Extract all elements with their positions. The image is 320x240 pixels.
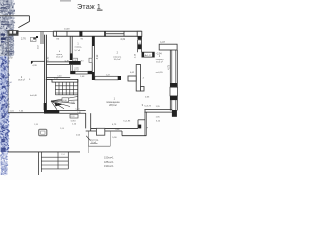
label 0,90 b: [71, 120, 77, 123]
leader line: [86, 136, 90, 141]
corner box: [137, 31, 142, 36]
svg-text:h=0,40: h=0,40: [30, 95, 38, 97]
stairs 0,90 box: [62, 98, 69, 102]
dim 7,44: [19, 111, 24, 113]
band76 pier right: [118, 76, 121, 80]
band62 lines: [46, 62, 69, 65]
svg-text:комната: комната: [113, 56, 122, 58]
top wall pier A: [79, 31, 82, 37]
dim 4,73 b: [112, 124, 117, 126]
top wall tick 4: [123, 31, 125, 36]
dim 0,62: [130, 72, 135, 74]
room 4 label: [156, 56, 164, 63]
dim 1,52 rotated: [38, 44, 40, 49]
top wall tick 1: [52, 31, 54, 36]
right wall pier 2: [170, 96, 178, 100]
equipment box: [39, 129, 47, 135]
dim 1,48: [80, 76, 85, 78]
svg-text:А=1,17: А=1,17: [145, 54, 152, 57]
corner pier lower: [138, 44, 142, 49]
left inner wall lines: [45, 35, 47, 113]
dim 1,40 a: [75, 108, 80, 110]
dim 5,90: [112, 137, 117, 139]
top wall outer line: [53, 30, 141, 32]
T pier step: [141, 87, 145, 92]
passage bottom line: [88, 145, 110, 147]
svg-text:2,76: 2,76: [21, 37, 26, 40]
door box 1,06: [72, 58, 77, 62]
label 4 small: [143, 78, 145, 80]
W2 pier bottom: [92, 72, 95, 80]
svg-text:14,48: 14,48: [64, 28, 70, 30]
dim 2,94: [156, 54, 162, 56]
svg-text:190га=1: 190га=1: [104, 164, 114, 168]
label 1,10 b: [72, 124, 77, 126]
dim 0,92: [8, 58, 13, 60]
band bottom low line: [122, 135, 146, 137]
top wall tick 3: [66, 31, 68, 36]
bottom stairs v1: [37, 152, 39, 175]
T pier foot: [128, 76, 136, 81]
left room label: [18, 77, 31, 82]
porch top line: [0, 15, 30, 17]
dim 3,38: [115, 129, 120, 131]
entrance window block: [8, 30, 19, 35]
svg-text:4,31: 4,31: [120, 38, 125, 41]
dim 4,99 left: [32, 65, 37, 67]
svg-text:4,99: 4,99: [97, 54, 99, 59]
svg-text:150га=1: 150га=1: [104, 156, 114, 160]
band71 pier right: [88, 71, 93, 74]
top wall pier B: [104, 31, 106, 37]
W1 lines: [70, 36, 72, 53]
svg-text:1,47: 1,47: [160, 41, 165, 44]
top wall tick 2: [55, 31, 57, 36]
band76 box: [95, 76, 118, 80]
room 1 label: [75, 43, 83, 52]
dim 1М: [56, 38, 59, 40]
title: Этаж 1: [77, 2, 103, 11]
passage left vertical: [87, 131, 89, 146]
svg-text:5,7 м²: 5,7 м²: [75, 49, 81, 52]
right wall window box: [170, 87, 178, 96]
label h=1,95: [124, 121, 132, 123]
svg-text:10,4 м²: 10,4 м²: [114, 58, 121, 61]
band bottom top line: [91, 127, 138, 129]
dim 2,04 a: [60, 128, 65, 130]
scan noise left edge: [0, 0, 15, 176]
wall bar: [86, 113, 91, 131]
dim 4,99 rotated: [97, 54, 99, 59]
svg-text:помещ.: помещ.: [75, 46, 83, 48]
dim 1,62 rotated: [47, 56, 49, 61]
band step vertical: [121, 131, 123, 136]
svg-text:0,90≈: 0,90≈: [71, 120, 77, 123]
porch right line: [28, 16, 30, 22]
room 3 number: [142, 103, 144, 107]
dim 1,95 a: [156, 106, 161, 108]
dim 0,70: [65, 60, 70, 62]
band pier near notch: [138, 125, 141, 129]
small box with marks: [30, 37, 36, 42]
dim НО: [81, 60, 84, 62]
svg-text:n=0,55: n=0,55: [156, 72, 164, 74]
lintel box A117: [142, 52, 154, 57]
dim 4,73 rotated: [167, 64, 170, 69]
top-right lintel box: [159, 44, 177, 50]
kitchen lower line: [46, 77, 70, 79]
T pier bar: [136, 65, 140, 92]
top wall inner line: [53, 35, 141, 37]
kitchen label: [56, 51, 63, 58]
stairs winder fan: [51, 97, 78, 110]
corner pier upper: [138, 36, 142, 39]
passage tail: [87, 146, 89, 153]
notch vertical: [137, 120, 139, 129]
dim 1,47: [160, 41, 165, 44]
svg-text:28,6 м²: 28,6 м²: [109, 104, 117, 107]
svg-text:10,2 м²: 10,2 м²: [156, 61, 163, 64]
kitchen part line: [31, 61, 45, 64]
bottom stairs v2: [40, 152, 42, 172]
room3 left wall: [145, 110, 146, 136]
strip note 1,04: [8, 82, 13, 84]
svg-text:4,73: 4,73: [167, 64, 170, 69]
svg-text:h=3,73: h=3,73: [144, 105, 151, 107]
top wall thin left line: [19, 31, 54, 33]
left wall pier b: [44, 103, 47, 110]
svg-text:1,9 м²: 1,9 м²: [74, 69, 79, 72]
yard long line: [8, 151, 80, 153]
dim 1,54: [61, 154, 66, 156]
right wall lines: [170, 50, 177, 110]
porch door diagonal: [18, 22, 29, 28]
door jamb lines: [41, 32, 43, 45]
dim 1,22: [106, 75, 111, 77]
right wall pier 1: [170, 83, 178, 87]
svg-text:1М: 1М: [56, 38, 59, 40]
stairs tread grid: [55, 82, 77, 95]
dim 4,31: [120, 38, 125, 41]
svg-text:18,9 м²: 18,9 м²: [18, 79, 25, 82]
note box: [70, 114, 78, 118]
room3 top band: [144, 110, 172, 113]
dim 2,76: [21, 37, 26, 40]
room 2 label: [113, 52, 122, 61]
dim 0,53: [145, 96, 150, 98]
label h=0,40: [30, 95, 38, 97]
bottom stairs treads: [41, 157, 68, 169]
dim 1,01: [10, 110, 15, 112]
right wall lower pier: [172, 110, 177, 117]
window midline: [106, 33, 124, 35]
passage label: [90, 140, 99, 144]
band bottom mid line: [86, 130, 122, 132]
svg-text:0,93: 0,93: [71, 116, 75, 118]
dim 1,40 b: [77, 112, 82, 114]
band62 pier: [69, 61, 81, 65]
passage right vertical: [109, 131, 111, 146]
W1 lower lines: [70, 65, 72, 71]
dim 95: [81, 38, 84, 40]
dim 2,62: [54, 78, 59, 80]
dim 9 rotated: [147, 126, 149, 128]
room 1 big label: [106, 98, 120, 107]
dim 1,10 rotated: [135, 53, 137, 58]
label n=0,55: [156, 72, 164, 74]
label h=3,73: [144, 105, 151, 107]
bottom stairs right v: [67, 152, 69, 169]
dim 1,48 stairs: [71, 102, 76, 104]
corner wall lines: [138, 36, 142, 52]
band71 pier left: [70, 71, 75, 74]
dim 1,89: [34, 124, 39, 126]
stairs top bar: [46, 79, 78, 82]
left exterior wall line: [7, 30, 9, 112]
dim 1,40 kitchen: [57, 75, 62, 77]
W2 pier top: [92, 36, 95, 46]
svg-text:h=1,95: h=1,95: [124, 121, 132, 123]
mid wall black: [44, 110, 59, 114]
dim 1,95 b: [156, 116, 161, 118]
W2 door box: [89, 58, 92, 62]
top edge smudge: [60, 0, 71, 2]
W1 pier: [70, 53, 73, 60]
stairs arrow: [55, 103, 63, 107]
wc label: [74, 68, 79, 72]
svg-text:13,1 м²: 13,1 м²: [56, 55, 63, 58]
dim 3,10: [156, 120, 161, 122]
svg-text:пв: пв: [31, 40, 33, 42]
stairs right line: [77, 79, 79, 110]
band71 lines: [75, 72, 87, 75]
dim 0,50: [137, 40, 142, 45]
bottom-right notes: [104, 156, 114, 168]
dim 2,04 b: [76, 135, 81, 137]
bottom stairs mid v: [57, 152, 59, 169]
notch horizontal: [138, 119, 145, 121]
jamb tick black: [36, 36, 38, 38]
svg-text:185га=1: 185га=1: [104, 160, 114, 164]
dim 14,48: [64, 28, 70, 30]
left bottom wall line: [8, 112, 44, 114]
band door box: [96, 128, 104, 135]
W2 lines: [92, 46, 94, 72]
mid wall lines: [59, 110, 85, 113]
svg-text:Этаж 1: Этаж 1: [77, 2, 101, 11]
